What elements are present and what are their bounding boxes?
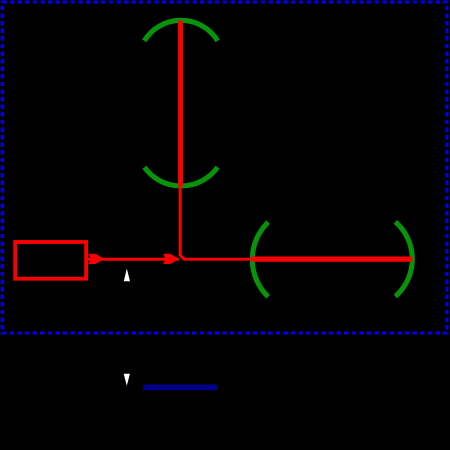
- white pointer up at beamsplitter: [124, 269, 130, 282]
- mirror M1: top end mirror of vertical arm: [144, 20, 217, 41]
- mirror M4: end mirror of horizontal arm: [395, 222, 412, 297]
- white pointer down at photodetector: [124, 374, 130, 386]
- vacuum enclosure dashed box: [2, 2, 447, 333]
- wire: vertical cavity thick beam: [178, 21, 183, 187]
- wire: beamsplitter fold, vertical arm feed and horizontal arm feed: [180, 184, 252, 259]
- laser box: [15, 242, 86, 279]
- arrowhead 1 on input beam: [88, 254, 104, 264]
- mirror M2: input mirror of vertical arm: [144, 167, 217, 186]
- mirror M3: input mirror of horizontal arm: [252, 222, 268, 297]
- wire: horizontal cavity thick beam: [252, 257, 413, 262]
- arrowhead 2 on input beam: [163, 254, 179, 264]
- wire: beam laser to beamsplitter: [87, 258, 179, 261]
- photodetector bar: [143, 385, 217, 391]
